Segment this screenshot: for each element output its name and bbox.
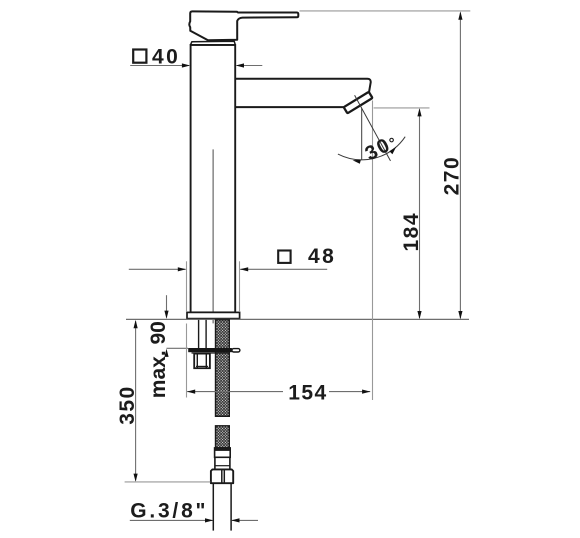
body center line	[212, 149, 214, 323]
washer tab	[232, 349, 240, 352]
angle 30 vertical reference line	[361, 109, 363, 160]
G3/8 threaded pipe end	[212, 483, 214, 530]
dimension 184 line	[419, 109, 421, 318]
hose hex nut	[211, 469, 233, 483]
clamping washer plate	[188, 348, 232, 352]
dimension 48 line	[129, 268, 186, 270]
dimension 270 top extension line	[300, 10, 471, 12]
hose crimp ferrule	[215, 448, 231, 457]
hose end piece	[215, 457, 230, 469]
dimension 350 line	[135, 321, 137, 480]
handle collar	[191, 41, 236, 45]
svg-text:270: 270	[440, 156, 463, 196]
faucet body column	[191, 45, 236, 312]
svg-text:154: 154	[288, 381, 328, 404]
dimension max90 lower arrow	[164, 349, 168, 357]
svg-text:max. 90: max. 90	[147, 321, 170, 398]
svg-text:184: 184	[400, 212, 423, 252]
angle 30 slanted line	[355, 95, 391, 161]
spout	[236, 79, 371, 107]
dimension max90 upper stem	[166, 295, 168, 317]
dimension 184 top extension line	[374, 107, 430, 109]
svg-text:48: 48	[308, 245, 336, 268]
dimension 270 line	[459, 13, 461, 319]
faucet handle lever	[189, 11, 298, 40]
G3/8 leader and dimension arrows	[130, 519, 213, 521]
angle 30 arc arrows	[353, 160, 361, 164]
dimension 154 line	[187, 391, 283, 393]
dimension 350 bottom extension line	[125, 481, 211, 483]
base flange	[187, 312, 240, 318]
angle 30 arc	[338, 137, 405, 160]
dimension 154 extension lines	[186, 324, 188, 398]
dimension 48 extension lines	[186, 261, 188, 312]
svg-text:G.3/8": G.3/8"	[130, 500, 208, 523]
svg-text:350: 350	[116, 385, 139, 425]
flexible hose upper segment	[216, 320, 230, 417]
threaded fixing stud	[198, 320, 200, 348]
deck mounting line	[126, 318, 469, 320]
flexible hose lower segment	[216, 426, 230, 448]
dimension 40 line	[130, 65, 189, 67]
dimension square-48 symbol	[278, 251, 290, 263]
aerator	[344, 92, 373, 114]
dimension square-40 symbol	[133, 50, 146, 63]
stud clamping nut	[194, 354, 210, 369]
